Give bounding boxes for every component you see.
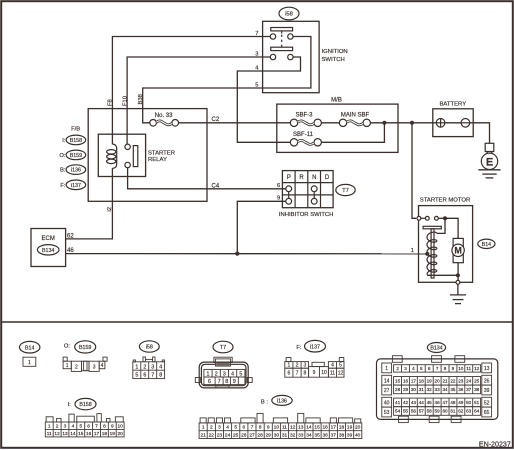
svg-text:MAIN SBF: MAIN SBF — [341, 113, 370, 119]
svg-text:25: 25 — [233, 433, 239, 439]
battery box — [433, 109, 473, 137]
svg-text:F10: F10 — [122, 96, 128, 106]
wire dot down to solenoid winding top — [437, 218, 445, 233]
inhibitor P contacts — [286, 186, 292, 204]
solenoid plunger T bar — [423, 226, 441, 229]
svg-text:4: 4 — [412, 366, 415, 371]
svg-text:6: 6 — [87, 424, 90, 430]
svg-text:EN-20237: EN-20237 — [479, 441, 511, 449]
wire ignition right-bottom terminal to pin4 exit to SBF-11 — [237, 57, 300, 142]
svg-text:No. 33: No. 33 — [155, 113, 173, 119]
svg-text:38: 38 — [339, 433, 345, 439]
wire to starter ground — [457, 284, 459, 295]
svg-text:12: 12 — [54, 431, 60, 437]
middle rows 15-25 / 28-38 — [394, 377, 481, 394]
left column cells — [382, 363, 392, 373]
ECM box — [31, 229, 66, 267]
svg-text:INHIBITOR SWITCH: INHIBITOR SWITCH — [279, 212, 334, 218]
svg-text:9: 9 — [313, 370, 316, 376]
connector label i58 (ignition switch) — [279, 7, 299, 20]
svg-text:B:: B: — [60, 168, 66, 174]
svg-text:65: 65 — [484, 410, 490, 416]
connector label T7 — [336, 184, 355, 195]
svg-text:13: 13 — [62, 431, 68, 437]
svg-text:21: 21 — [201, 433, 207, 439]
svg-text:2: 2 — [210, 425, 213, 431]
svg-text:30: 30 — [274, 433, 280, 439]
svg-text:B134: B134 — [430, 346, 442, 352]
svg-text:60: 60 — [442, 409, 448, 414]
svg-text:32: 32 — [290, 433, 296, 439]
solenoid winding helix — [427, 232, 437, 274]
svg-text:8: 8 — [259, 425, 262, 431]
svg-text:22: 22 — [450, 379, 456, 384]
svg-text:O:: O: — [64, 344, 71, 350]
svg-text:F/B: F/B — [71, 126, 80, 132]
svg-text:6: 6 — [288, 371, 291, 377]
middle rows 41-51 / 54-64 — [394, 398, 481, 415]
starter motor box — [419, 206, 473, 283]
svg-text:i136: i136 — [71, 168, 81, 174]
svg-text:13: 13 — [298, 425, 304, 431]
svg-text:B159: B159 — [79, 345, 91, 351]
fuse SBF-3 — [290, 113, 321, 127]
svg-text:B38: B38 — [138, 94, 144, 104]
svg-text:8: 8 — [225, 379, 228, 385]
svg-text:12: 12 — [338, 371, 344, 377]
ignition terminal 3 circle — [270, 54, 275, 59]
svg-text:11: 11 — [47, 431, 52, 437]
motor M — [452, 238, 464, 262]
starter relay contact bar — [133, 146, 138, 167]
svg-text:27: 27 — [249, 433, 255, 439]
svg-text:36: 36 — [323, 433, 329, 439]
svg-text:20: 20 — [118, 431, 124, 437]
wire battery negative to ground E — [470, 123, 490, 144]
svg-text:44: 44 — [419, 400, 425, 405]
starter relay coil — [107, 144, 117, 169]
svg-text:T7: T7 — [342, 188, 349, 194]
svg-text:34: 34 — [306, 433, 312, 439]
svg-text:33: 33 — [298, 433, 304, 439]
F/B connector I: B158 — [62, 135, 85, 145]
svg-text:8: 8 — [304, 371, 307, 377]
svg-text:10: 10 — [458, 366, 464, 371]
svg-text:42: 42 — [403, 400, 409, 405]
svg-text:ECM: ECM — [42, 236, 55, 242]
wire battery internal — [445, 122, 461, 124]
svg-text:61: 61 — [450, 409, 456, 414]
ignition switch contact bar 1 — [271, 28, 293, 31]
svg-text:19: 19 — [110, 431, 116, 437]
svg-text:i58: i58 — [146, 345, 153, 351]
svg-text:C4: C4 — [212, 183, 220, 189]
svg-text:N: N — [312, 175, 316, 181]
wire fuse No.33 to C2 / SBF-3 — [179, 122, 291, 124]
svg-text:17: 17 — [94, 431, 100, 437]
svg-text:7: 7 — [151, 373, 154, 379]
svg-text:24: 24 — [225, 433, 231, 439]
svg-text:30: 30 — [411, 387, 417, 392]
svg-text:B :: B : — [261, 399, 268, 405]
connector i58 (bottom) — [133, 341, 165, 379]
svg-text:29: 29 — [403, 387, 409, 392]
svg-text:24: 24 — [466, 379, 472, 384]
svg-text:25: 25 — [474, 379, 480, 384]
svg-text:15: 15 — [78, 431, 84, 437]
ECM connector ellipse B134 — [37, 245, 59, 255]
connector F: i137 — [285, 340, 344, 377]
svg-text:18: 18 — [102, 431, 108, 437]
starter ground terminal circle — [456, 280, 460, 284]
svg-text:i136: i136 — [277, 398, 287, 404]
wire ECM 46 to starter pin 1 — [66, 253, 428, 255]
svg-text:1: 1 — [288, 363, 291, 369]
fuse SBF-11 — [290, 132, 321, 146]
wire SBF-11 riser to main node — [321, 123, 384, 143]
svg-text:3: 3 — [151, 364, 154, 370]
svg-text:4: 4 — [226, 425, 229, 431]
ground symbol at E — [478, 170, 500, 178]
wire dot to motor top — [445, 218, 458, 238]
fuse MAIN SBF — [339, 113, 370, 127]
svg-text:32: 32 — [427, 387, 433, 392]
svg-text:11: 11 — [466, 366, 471, 371]
svg-text:16: 16 — [86, 431, 92, 437]
svg-text:10: 10 — [321, 370, 327, 376]
svg-text:15: 15 — [314, 425, 320, 431]
battery negative terminal — [461, 119, 470, 128]
svg-text:28: 28 — [257, 433, 263, 439]
svg-text:2: 2 — [215, 372, 218, 378]
svg-text:36: 36 — [458, 387, 464, 392]
starter relay contact top circle — [125, 144, 130, 149]
svg-text:27: 27 — [384, 388, 390, 394]
svg-text:C2: C2 — [212, 117, 220, 123]
svg-text:15: 15 — [395, 379, 401, 384]
svg-text:RELAY: RELAY — [148, 157, 167, 163]
ignition switch contact bar 2 — [271, 47, 293, 50]
svg-text:4: 4 — [331, 363, 334, 369]
svg-text:9: 9 — [233, 379, 236, 385]
svg-text:B134: B134 — [42, 248, 54, 254]
svg-text:2: 2 — [56, 424, 59, 430]
svg-text:3: 3 — [218, 425, 221, 431]
svg-text:47: 47 — [442, 400, 448, 405]
svg-text:48: 48 — [450, 400, 456, 405]
svg-text:5: 5 — [79, 424, 82, 430]
starter contact terminal circle A — [417, 216, 421, 220]
svg-text:5: 5 — [135, 373, 138, 379]
svg-text:37: 37 — [331, 433, 337, 439]
ignition switch box U1 — [263, 21, 320, 92]
svg-text:18: 18 — [339, 425, 345, 431]
ignition switch linkage stub — [281, 31, 283, 34]
starter contact terminal circle C — [435, 216, 439, 220]
svg-text:18: 18 — [419, 379, 425, 384]
wire ignition pin7 to F8 drop — [112, 37, 270, 145]
wire motor bottom to ground — [457, 263, 459, 281]
svg-text:23: 23 — [458, 379, 464, 384]
svg-text:STARTER: STARTER — [148, 151, 175, 157]
svg-text:6: 6 — [242, 425, 245, 431]
svg-text:1: 1 — [207, 372, 210, 378]
svg-text:2: 2 — [75, 364, 78, 370]
solenoid plunger rod — [431, 229, 434, 278]
svg-text:10: 10 — [274, 425, 280, 431]
svg-text:57: 57 — [419, 409, 425, 414]
svg-text:3: 3 — [304, 363, 307, 369]
svg-text:6: 6 — [208, 379, 211, 385]
ground E circle — [481, 153, 497, 169]
starter relay contact bottom circle — [125, 162, 130, 167]
svg-text:8: 8 — [159, 373, 162, 379]
svg-text:14: 14 — [70, 431, 76, 437]
svg-text:1: 1 — [66, 363, 69, 369]
fuse No. 33 — [150, 113, 179, 126]
svg-text:31: 31 — [282, 433, 288, 439]
ground E connector square — [485, 143, 494, 151]
svg-text:38: 38 — [474, 387, 480, 392]
svg-text:4: 4 — [231, 372, 234, 378]
F/B connector F: i137 — [60, 180, 85, 190]
svg-text:52: 52 — [484, 400, 490, 406]
starter contact terminal circle B — [425, 216, 429, 220]
svg-text:F8: F8 — [108, 99, 114, 106]
svg-text:35: 35 — [314, 433, 320, 439]
svg-text:34: 34 — [442, 387, 448, 392]
svg-text:1: 1 — [135, 364, 138, 370]
wire battery node down to starter motor contact — [412, 123, 416, 219]
svg-text:22: 22 — [209, 433, 215, 439]
svg-text:3: 3 — [93, 364, 96, 370]
svg-text:i58: i58 — [285, 12, 293, 18]
svg-text:53: 53 — [384, 410, 390, 416]
svg-text:39: 39 — [484, 388, 490, 394]
junction dot pin1 on winding — [425, 252, 429, 256]
svg-text:B158: B158 — [70, 138, 82, 144]
svg-text:i137: i137 — [71, 183, 81, 189]
svg-text:43: 43 — [411, 400, 417, 405]
svg-text:2: 2 — [296, 363, 299, 369]
svg-text:56: 56 — [411, 409, 417, 414]
svg-text:7: 7 — [218, 379, 221, 385]
svg-text:2: 2 — [143, 364, 146, 370]
svg-text:M/B: M/B — [331, 98, 342, 104]
inhibitor N contacts — [311, 186, 317, 204]
svg-text:I:: I: — [62, 138, 66, 144]
junction dot M/B node — [382, 121, 386, 125]
inhibitor switch column labels — [287, 175, 330, 181]
svg-text:2: 2 — [396, 366, 399, 371]
svg-text:6: 6 — [143, 373, 146, 379]
svg-text:SBF-3: SBF-3 — [295, 113, 313, 119]
svg-text:SBF-11: SBF-11 — [293, 132, 314, 138]
svg-text:39: 39 — [347, 433, 353, 439]
svg-text:8: 8 — [444, 366, 447, 371]
svg-text:O:: O: — [59, 153, 66, 159]
junction dot motor bottom — [456, 273, 460, 277]
inhibitor switch grid — [282, 171, 333, 208]
M/B fuse box — [277, 104, 398, 152]
connector I: B158 — [45, 398, 124, 437]
ignition switch label — [322, 49, 348, 63]
svg-text:41: 41 — [395, 400, 401, 405]
svg-text:1: 1 — [385, 366, 388, 372]
connector T7 (bottom) — [195, 341, 252, 388]
svg-text:SWITCH: SWITCH — [322, 57, 345, 63]
svg-text:3: 3 — [223, 372, 226, 378]
svg-text:7: 7 — [436, 366, 439, 371]
svg-text:I:: I: — [68, 402, 72, 408]
svg-text:R: R — [299, 175, 304, 181]
svg-text:45: 45 — [427, 400, 433, 405]
svg-text:4: 4 — [72, 424, 75, 430]
svg-text:40: 40 — [384, 400, 390, 406]
wire relay coil bottom to ECM 62 — [66, 168, 113, 239]
svg-text:B14: B14 — [482, 242, 491, 248]
svg-text:P: P — [287, 175, 291, 181]
wire ignition pin3 to F10 drop — [127, 57, 270, 144]
svg-text:7: 7 — [251, 425, 254, 431]
wire inhibitor pin9 to ECM46 node — [237, 201, 285, 253]
svg-text:35: 35 — [450, 387, 456, 392]
svg-text:5: 5 — [239, 372, 242, 378]
svg-text:64: 64 — [474, 409, 480, 414]
svg-text:55: 55 — [403, 409, 409, 414]
svg-text:5: 5 — [420, 366, 423, 371]
wire ignition right-top terminal to pin5 exit to B38 drop — [143, 37, 311, 123]
svg-text:49: 49 — [458, 400, 464, 405]
svg-text:26: 26 — [484, 378, 490, 384]
connector O: B159 — [63, 341, 107, 372]
wire winding bottom to motor bottom — [428, 274, 458, 277]
svg-text:11: 11 — [282, 425, 287, 431]
svg-text:14: 14 — [306, 425, 312, 431]
svg-text:9: 9 — [111, 424, 114, 430]
svg-text:16: 16 — [323, 425, 329, 431]
svg-text:54: 54 — [395, 409, 401, 414]
junction dot pin9/ECM46 — [235, 252, 239, 256]
connector B: i136 — [199, 395, 362, 438]
svg-text:4: 4 — [101, 363, 104, 369]
svg-text:9: 9 — [267, 425, 270, 431]
svg-text:26: 26 — [241, 433, 247, 439]
svg-text:46: 46 — [435, 400, 441, 405]
svg-text:T7: T7 — [220, 345, 226, 351]
F/B fuse box — [88, 109, 207, 202]
svg-text:62: 62 — [458, 409, 464, 414]
svg-text:5: 5 — [234, 425, 237, 431]
svg-text:7: 7 — [95, 424, 98, 430]
svg-text:M: M — [454, 246, 462, 256]
svg-text:37: 37 — [466, 387, 472, 392]
svg-text:B159: B159 — [70, 153, 82, 159]
svg-text:1: 1 — [28, 360, 31, 366]
svg-text:33: 33 — [435, 387, 441, 392]
junction dot starter contact out — [443, 216, 447, 220]
connector B134 (bottom) — [377, 343, 498, 423]
svg-text:12: 12 — [290, 425, 296, 431]
svg-text:10: 10 — [118, 424, 124, 430]
svg-text:20: 20 — [435, 379, 441, 384]
wire MAIN SBF to battery — [370, 122, 436, 124]
svg-text:7: 7 — [296, 371, 299, 377]
starter relay label — [148, 151, 175, 164]
svg-text:51: 51 — [474, 400, 480, 405]
connector label B14 — [478, 239, 495, 248]
svg-text:1: 1 — [202, 425, 205, 431]
svg-text:50: 50 — [466, 400, 472, 405]
svg-text:E: E — [486, 156, 493, 168]
svg-text:i137: i137 — [310, 344, 320, 350]
svg-text:28: 28 — [395, 387, 401, 392]
ignition terminal right-top circle — [288, 34, 293, 39]
svg-text:17: 17 — [331, 425, 337, 431]
ground E neck — [487, 152, 493, 154]
svg-text:16: 16 — [403, 379, 409, 384]
svg-text:12: 12 — [474, 366, 480, 371]
svg-text:62: 62 — [67, 233, 74, 239]
svg-text:1: 1 — [48, 424, 51, 430]
svg-text:9: 9 — [452, 366, 455, 371]
svg-text:4: 4 — [159, 364, 162, 370]
svg-text:40: 40 — [355, 433, 361, 439]
svg-text:19: 19 — [347, 425, 353, 431]
svg-text:5: 5 — [339, 363, 342, 369]
svg-text:59: 59 — [435, 409, 441, 414]
svg-text:STARTER MOTOR: STARTER MOTOR — [420, 198, 470, 204]
wire SBF-3 to MAIN SBF — [321, 122, 339, 124]
svg-text:D: D — [325, 175, 330, 181]
svg-text:6: 6 — [277, 183, 280, 189]
ignition terminal 7 circle — [270, 34, 275, 39]
svg-text:21: 21 — [442, 379, 448, 384]
svg-text:58: 58 — [427, 409, 433, 414]
svg-text:13: 13 — [484, 366, 490, 372]
ignition terminal right-bottom circle — [288, 54, 293, 59]
battery positive terminal — [436, 119, 445, 128]
wire relay contact to C4 / inhibitor pin6 — [128, 168, 286, 189]
svg-text:29: 29 — [266, 433, 272, 439]
F/B connector B: i136 — [60, 165, 86, 175]
section divider — [2, 321, 512, 323]
wire contact B to C gap — [421, 217, 426, 219]
svg-text:8: 8 — [103, 424, 106, 430]
svg-text:17: 17 — [411, 379, 417, 384]
svg-text:3: 3 — [404, 366, 407, 371]
svg-text:F:: F: — [60, 183, 66, 189]
svg-text:B14: B14 — [25, 345, 34, 351]
svg-text:BATTERY: BATTERY — [440, 102, 467, 108]
svg-text:14: 14 — [384, 378, 390, 384]
junction dot battery feed node — [410, 121, 414, 125]
svg-text:3: 3 — [64, 424, 67, 430]
svg-text:i2: i2 — [107, 207, 113, 212]
ignition switch linkage dashed — [281, 35, 283, 48]
svg-text:19: 19 — [427, 379, 433, 384]
svg-text:20: 20 — [355, 425, 361, 431]
ground symbol starter — [450, 295, 466, 304]
svg-text:IGNITION: IGNITION — [322, 49, 348, 55]
right column cells — [482, 363, 492, 373]
F/B connector O: B159 — [59, 150, 85, 160]
svg-text:31: 31 — [419, 387, 425, 392]
svg-text:1: 1 — [411, 248, 414, 254]
svg-text:B158: B158 — [79, 402, 91, 408]
svg-text:23: 23 — [217, 433, 223, 439]
starter relay box — [98, 134, 145, 176]
